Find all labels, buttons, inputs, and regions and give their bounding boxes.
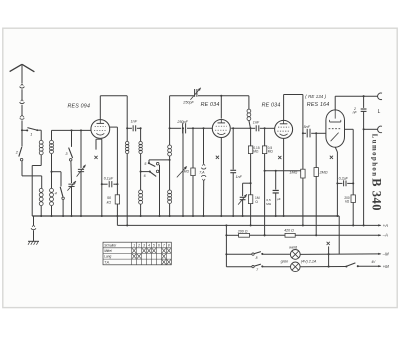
tube V2 RE034 <box>212 120 230 138</box>
svg-text:1MΩ: 1MΩ <box>289 171 297 175</box>
svg-text:( RE 134 ): ( RE 134 ) <box>305 94 326 99</box>
capacitor 1nF (V1-V2 coupling) <box>127 120 141 132</box>
antenna <box>10 64 35 83</box>
svg-text:1nF: 1nF <box>253 121 260 125</box>
resistor (osc) <box>191 127 195 217</box>
wire to switch S5 <box>149 160 170 163</box>
capacitor 0,1uF <box>101 176 118 187</box>
variable capacitor (AF) <box>238 183 251 217</box>
svg-text:6: 6 <box>144 174 146 178</box>
grid wire to tube V1 <box>52 129 92 131</box>
wire L4 bottom to bus <box>50 206 52 217</box>
svg-text:200 Ω: 200 Ω <box>237 229 248 233</box>
V1 plate riser <box>100 96 127 120</box>
svg-text:RES 094: RES 094 <box>68 104 91 110</box>
wire switch1 to coil L1 <box>40 130 42 140</box>
V3 plate feed drop <box>302 95 304 135</box>
svg-text:grün: grün <box>281 260 289 264</box>
tube V1 RES094 <box>91 120 110 139</box>
coil L2 (antenna secondary) <box>50 140 54 144</box>
svg-text:weiß: weiß <box>289 246 298 250</box>
V2 plate drop <box>220 96 222 119</box>
variable tuning capacitor C-var <box>77 129 86 217</box>
capacitor 1nF (V2 anode) <box>230 127 242 217</box>
svg-text:+A: +A <box>383 223 389 228</box>
ground bus <box>32 215 339 217</box>
svg-text:5: 5 <box>144 162 146 166</box>
svg-text:µF: µF <box>277 197 281 201</box>
rail to trimmer <box>170 96 194 129</box>
choke coil L10 <box>247 96 251 128</box>
resistor 1M (V4 grid) <box>289 133 305 226</box>
wire AF coupling <box>265 170 301 172</box>
antenna plug connector 3 <box>20 115 25 130</box>
svg-text:8: 8 <box>168 243 170 247</box>
jack 7A <box>199 127 206 217</box>
terminal -A <box>378 232 388 237</box>
wire antenna down to coil L3 <box>22 161 42 189</box>
svg-text:MΩ: MΩ <box>184 169 190 173</box>
capacitor 5nF <box>303 125 316 137</box>
svg-text:50: 50 <box>107 196 111 200</box>
ground jack and earth <box>28 216 39 245</box>
switch S8 (lamp white) <box>226 252 290 260</box>
wire V2 to choke node <box>231 127 251 129</box>
coil L1 (antenna primary) <box>39 140 43 144</box>
svg-text:RE 034: RE 034 <box>201 102 220 108</box>
wire 2nF line down <box>363 129 365 226</box>
coil L4 (longwave secondary) <box>50 188 54 192</box>
svg-text:250pF: 250pF <box>182 100 194 104</box>
svg-text:1nF: 1nF <box>131 120 138 124</box>
wire L3 bottom to bus <box>40 206 42 217</box>
svg-text:+M: +M <box>383 264 390 269</box>
wire lamp white to terminal <box>300 253 380 255</box>
switch S3 <box>65 129 72 183</box>
resistor 0,5M <box>262 127 273 153</box>
rail +A <box>117 216 380 225</box>
switch S6 <box>141 170 159 178</box>
speaker terminal 2 <box>378 126 382 133</box>
capacitor grid leak <box>266 171 281 217</box>
svg-text:B 340: B 340 <box>369 178 383 211</box>
V1 anode feed drop <box>126 96 128 130</box>
svg-text:MΩ: MΩ <box>268 150 274 154</box>
test point x (lamp line) <box>327 242 330 245</box>
coil L7 (osc left) <box>139 172 143 217</box>
capacitor 0,2uF <box>336 177 354 187</box>
svg-text:–M: –M <box>382 251 389 256</box>
wire S5/S6 to bus <box>158 165 160 217</box>
switch S5 <box>144 162 159 167</box>
bus end down to -M <box>338 216 340 254</box>
wire lamp junction <box>328 246 330 267</box>
capacitor 250pF (series) <box>170 120 213 134</box>
svg-text:2: 2 <box>137 243 140 247</box>
V1 output wire <box>110 127 118 184</box>
svg-text:0,1µF: 0,1µF <box>104 176 114 180</box>
svg-text:–A: –A <box>382 232 388 237</box>
V4 filament line <box>335 147 338 217</box>
wire grid to V3 <box>265 127 275 129</box>
svg-text:(4V) 2,1A: (4V) 2,1A <box>301 260 317 264</box>
resistor 0,5M grid leak with cap <box>264 154 266 237</box>
node choke/grid <box>250 127 252 129</box>
wire lamp green to switch <box>300 266 346 268</box>
V4 anode side wire <box>345 129 354 195</box>
lamp green <box>281 260 301 272</box>
svg-text:8: 8 <box>256 256 258 260</box>
lamp feed wire <box>225 224 227 266</box>
svg-text:6: 6 <box>158 243 160 247</box>
svg-text:3: 3 <box>143 243 145 247</box>
capacitor 1nF (V3 grid) <box>252 121 265 132</box>
svg-text:1: 1 <box>133 243 135 247</box>
svg-text:kΩ: kΩ <box>345 200 350 204</box>
svg-text:Lang: Lang <box>104 255 111 259</box>
resistor 1M (AF) <box>248 183 259 226</box>
node 0,15M bottom <box>250 154 252 185</box>
terminal -M <box>378 251 389 256</box>
resistor 200k <box>344 195 355 227</box>
coil L3 (longwave primary) <box>39 188 43 192</box>
potentiometer 2kOhm <box>177 127 190 217</box>
coil L9 (osc right) <box>168 160 172 217</box>
lamp white <box>289 246 300 260</box>
coil L8 (osc grid) <box>168 127 172 161</box>
capacitor 2nF <box>353 96 367 130</box>
svg-text:7: 7 <box>163 243 165 247</box>
svg-text:2MΩ: 2MΩ <box>319 170 328 174</box>
rail trimmer to choke <box>198 95 249 97</box>
speaker terminal 1 <box>378 93 382 100</box>
svg-text:Lumophon: Lumophon <box>371 134 378 178</box>
switch S7 (lamp green) <box>226 264 290 272</box>
antenna plug connector 2 <box>20 100 25 116</box>
trimmer capacitor C-trim <box>67 181 76 217</box>
svg-text:L: L <box>378 109 381 115</box>
svg-text:MΩ: MΩ <box>266 202 272 206</box>
switch position table <box>103 242 171 265</box>
antenna plug connector 1 <box>20 84 25 100</box>
switch S4 <box>52 172 65 217</box>
svg-text:RE 034: RE 034 <box>262 102 281 108</box>
svg-text:4: 4 <box>55 192 57 196</box>
svg-text:kΩ: kΩ <box>107 200 112 204</box>
svg-text:MΩ: MΩ <box>253 150 259 154</box>
svg-text:1: 1 <box>30 132 32 136</box>
wire L1 bottom to bus <box>32 155 41 216</box>
V2 filament line <box>220 138 222 218</box>
terminal +A <box>378 223 388 228</box>
V3 plate riser <box>284 95 303 121</box>
V1 filament legs <box>96 139 103 217</box>
svg-text:Schalter: Schalter <box>104 243 117 247</box>
V3 test point x <box>278 156 281 159</box>
rail -A with resistors <box>226 229 380 238</box>
wire L2 to L4 <box>50 154 52 189</box>
V2 test point x <box>216 156 219 159</box>
switch S9 (battery) <box>345 260 380 268</box>
tube V4 RES164 <box>326 110 345 147</box>
resistor 2M <box>314 132 328 236</box>
svg-text:7: 7 <box>256 268 258 272</box>
V4 test point x <box>330 156 333 159</box>
svg-text:7,A: 7,A <box>199 171 205 175</box>
svg-text:4: 4 <box>148 243 150 247</box>
switch S1 <box>27 128 41 137</box>
svg-text:1nF: 1nF <box>236 175 243 179</box>
svg-text:RES 164: RES 164 <box>307 102 330 108</box>
wire grid to V4 <box>316 132 326 134</box>
switch S2 <box>15 130 23 161</box>
wire antenna to switch 1 <box>21 129 28 131</box>
svg-text:5nF: 5nF <box>304 125 311 129</box>
V4 plate riser <box>335 95 378 110</box>
resistor 0,15M <box>248 128 259 153</box>
tube V3 RE034 <box>275 120 293 138</box>
resistor 50k <box>107 183 120 217</box>
coil L5 (IF primary) <box>126 128 129 226</box>
svg-text:0,2µF: 0,2µF <box>339 177 349 181</box>
svg-text:Mittel: Mittel <box>104 249 112 253</box>
svg-text:T.A.: T.A. <box>104 260 110 264</box>
svg-text:420 Ω: 420 Ω <box>284 229 294 233</box>
coil L6 (IF secondary) <box>139 128 142 172</box>
trimmer capacitor 250pF <box>182 88 201 105</box>
wire to speaker terminal 2 <box>364 128 378 130</box>
wire L2 top to grid line <box>51 130 53 140</box>
svg-text:250pF: 250pF <box>176 120 188 124</box>
V3 filament line <box>283 138 285 217</box>
V1 test point x <box>94 156 97 159</box>
terminal +M <box>378 264 389 269</box>
svg-text:5: 5 <box>153 243 155 247</box>
